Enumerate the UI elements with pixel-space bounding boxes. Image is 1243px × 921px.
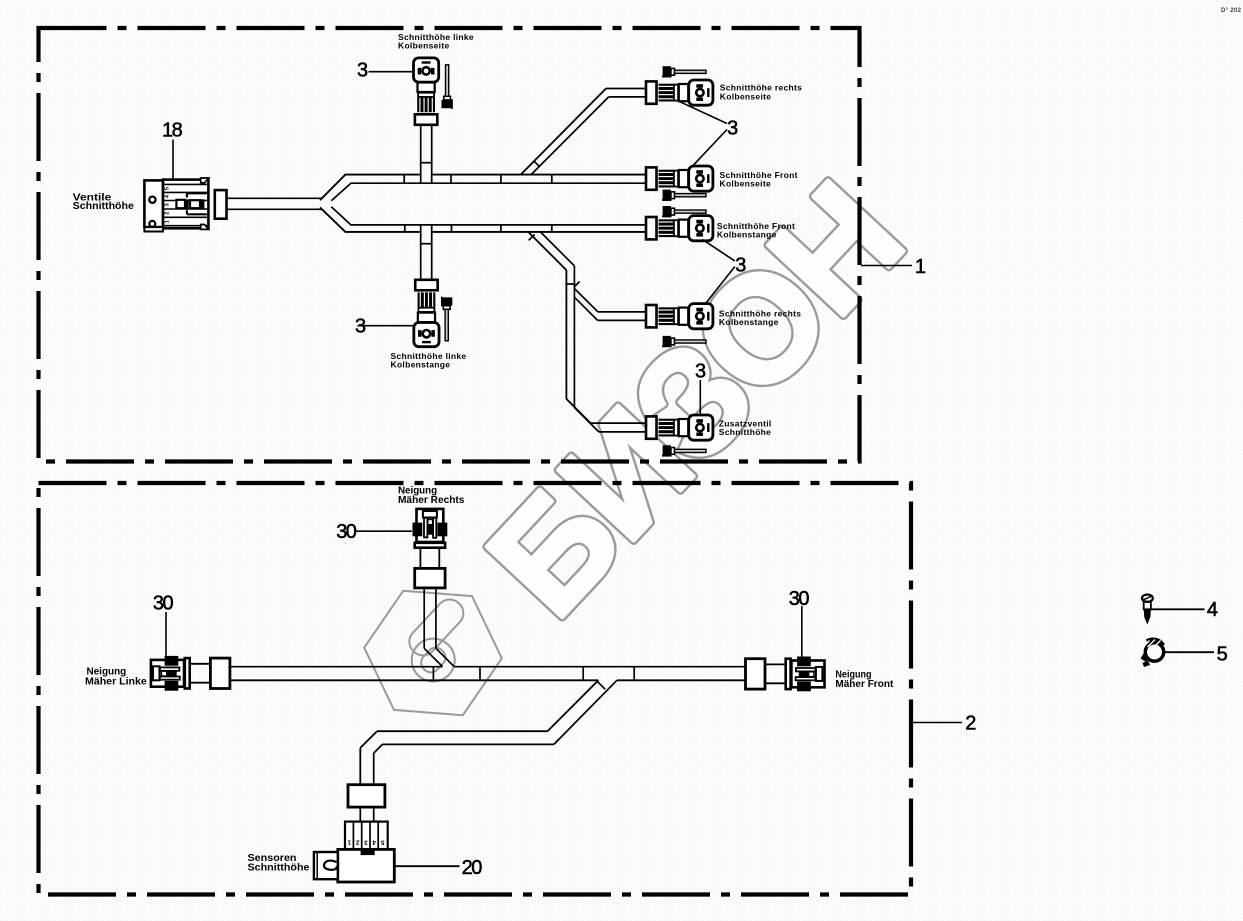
tick on vertical pair [565, 283, 575, 285]
connector 3 Zusatzventil Schnitth&#246;he [646, 415, 713, 440]
connector 3 Schnitth&#246;he Front Kolbenstange [646, 216, 713, 241]
label 1 with leader [861, 265, 912, 267]
svg-text:Schnitthöhe: Schnitthöhe [73, 201, 135, 212]
tick on lower branch [420, 243, 433, 245]
wire sensor branch verticals [359, 748, 361, 785]
svg-text:3: 3 [364, 839, 368, 846]
connector 18 Ventile Schnitthoehe [144, 178, 226, 232]
wire trunk outer top line [345, 174, 420, 176]
svg-text:D° 202: D° 202 [1221, 8, 1242, 14]
svg-text:30: 30 [153, 592, 174, 614]
screw for connector b [662, 190, 706, 201]
svg-text:1: 1 [915, 256, 926, 278]
wire branch down to connector 3 bottom [420, 225, 422, 280]
svg-text:5: 5 [1217, 643, 1228, 665]
connector 30 Neigung Maeher Linke [151, 656, 230, 691]
screw item 4 [1142, 595, 1153, 625]
wire trunk inner V left [331, 183, 351, 201]
wire branch to Schnitthoehe rechts Kolbenstange [574, 289, 598, 312]
wire sensor branch elbows [360, 731, 377, 748]
tick on branch a [534, 161, 540, 167]
svg-text:1: 1 [165, 219, 171, 223]
svg-text:3: 3 [355, 316, 366, 338]
svg-text:Kolbenstange: Kolbenstange [391, 360, 451, 370]
svg-text:Mäher Rechts: Mäher Rechts [398, 495, 465, 506]
tick on upper branch [420, 162, 433, 164]
svg-text:5: 5 [165, 186, 171, 190]
wire into sensor comb [359, 807, 361, 822]
wire branch down-right to lower connectors [528, 232, 566, 270]
svg-text:Kolbenstange: Kolbenstange [719, 317, 779, 327]
label 20 with leader [395, 865, 460, 867]
svg-text:Schnitthöhe: Schnitthöhe [248, 863, 310, 874]
connector 3 Schnitthoehe linke Kolbenstange [414, 280, 439, 347]
wire lower trunk top line [230, 666, 443, 668]
connector 3 Schnitth&#246;he rechts Kolbenseite [646, 80, 713, 105]
svg-text:18: 18 [162, 120, 183, 142]
svg-text:Schnitthöhe: Schnitthöhe [719, 427, 771, 437]
wire trunk outer V left [320, 175, 345, 201]
svg-text:30: 30 [336, 521, 357, 543]
screw for bottom connector 3 [441, 297, 452, 341]
screw for connector d [662, 336, 706, 347]
connector 30 Neigung Maeher Rechts [413, 509, 448, 588]
connector 3 Schnitth&#246;he rechts Kolbenstange [646, 304, 713, 329]
svg-text:4: 4 [165, 194, 171, 198]
svg-text:3: 3 [735, 255, 746, 277]
connector 3 Schnitth&#246;he Front Kolbenseite [646, 166, 713, 191]
svg-text:3: 3 [165, 202, 171, 206]
label 2 with leader [913, 722, 963, 724]
svg-text:4: 4 [1207, 599, 1218, 621]
wire elbow to Zusatzventil connector [566, 399, 590, 423]
watermark logo hexagon [364, 591, 502, 715]
svg-text:Kolbenstange: Kolbenstange [717, 229, 777, 239]
sensor ferrule [348, 785, 385, 807]
screw for top connector 3 [442, 65, 453, 109]
wire cable from connector 18 [227, 197, 322, 199]
wire vertical pair to Zusatzventil [565, 270, 567, 399]
connector 30 Neigung Maeher Front [746, 657, 825, 692]
wire trunk inner bottom line [350, 224, 646, 226]
box 2 frame (lower harness) [39, 483, 912, 895]
svg-text:Mäher Front: Mäher Front [835, 679, 894, 690]
svg-text:3: 3 [357, 60, 368, 82]
svg-text:2: 2 [356, 839, 360, 846]
tick on branch de [529, 234, 535, 240]
svg-text:Kolbenseite: Kolbenseite [720, 178, 771, 188]
wire branch up to connector 3 top [420, 125, 422, 183]
wire lower trunk bottom line [230, 679, 598, 681]
svg-text:2: 2 [965, 712, 976, 734]
screw for connector a [662, 66, 706, 77]
wire drop from Neigung Maeher Rechts [423, 587, 425, 649]
svg-text:Mäher Linke: Mäher Linke [85, 677, 147, 688]
box 1 frame (upper harness) [39, 28, 860, 462]
svg-text:3: 3 [727, 117, 738, 139]
wire branch to Schnitthoehe rechts Kolbenseite [521, 89, 606, 175]
wire sensor branch horizontals [377, 730, 548, 732]
junction ticks on lower trunk [432, 668, 434, 680]
junction ticks on trunk bottom edge [404, 225, 406, 232]
svg-text:3: 3 [695, 361, 706, 383]
wire branch down to sensors [548, 680, 599, 731]
screw for connector e [662, 445, 706, 456]
label 5 with leader [1163, 651, 1214, 653]
junction ticks on trunk top edge [403, 175, 405, 184]
svg-text:30: 30 [789, 588, 810, 610]
wire trunk inner top line [350, 182, 646, 184]
clip item 5 [1141, 640, 1164, 668]
tick on sensor branch [597, 681, 605, 689]
sensor body Sensoren Schnitthoehe [338, 849, 395, 882]
svg-text:Kolbenseite: Kolbenseite [398, 41, 449, 51]
connector 3 Schnitthoehe linke Kolbenseite [414, 58, 439, 125]
svg-text:4: 4 [372, 839, 376, 846]
screw for connector c [662, 206, 706, 217]
svg-text:20: 20 [462, 857, 483, 879]
sensor comb connector [345, 822, 388, 850]
svg-text:Kolbenseite: Kolbenseite [720, 91, 771, 101]
svg-text:1: 1 [347, 839, 351, 846]
tick on branch d [574, 282, 580, 288]
label 4 with leader [1151, 608, 1205, 610]
sensor left bracket [314, 852, 338, 879]
svg-text:2: 2 [165, 211, 171, 215]
svg-text:5: 5 [380, 839, 384, 846]
wire trunk outer bottom line [345, 231, 420, 233]
